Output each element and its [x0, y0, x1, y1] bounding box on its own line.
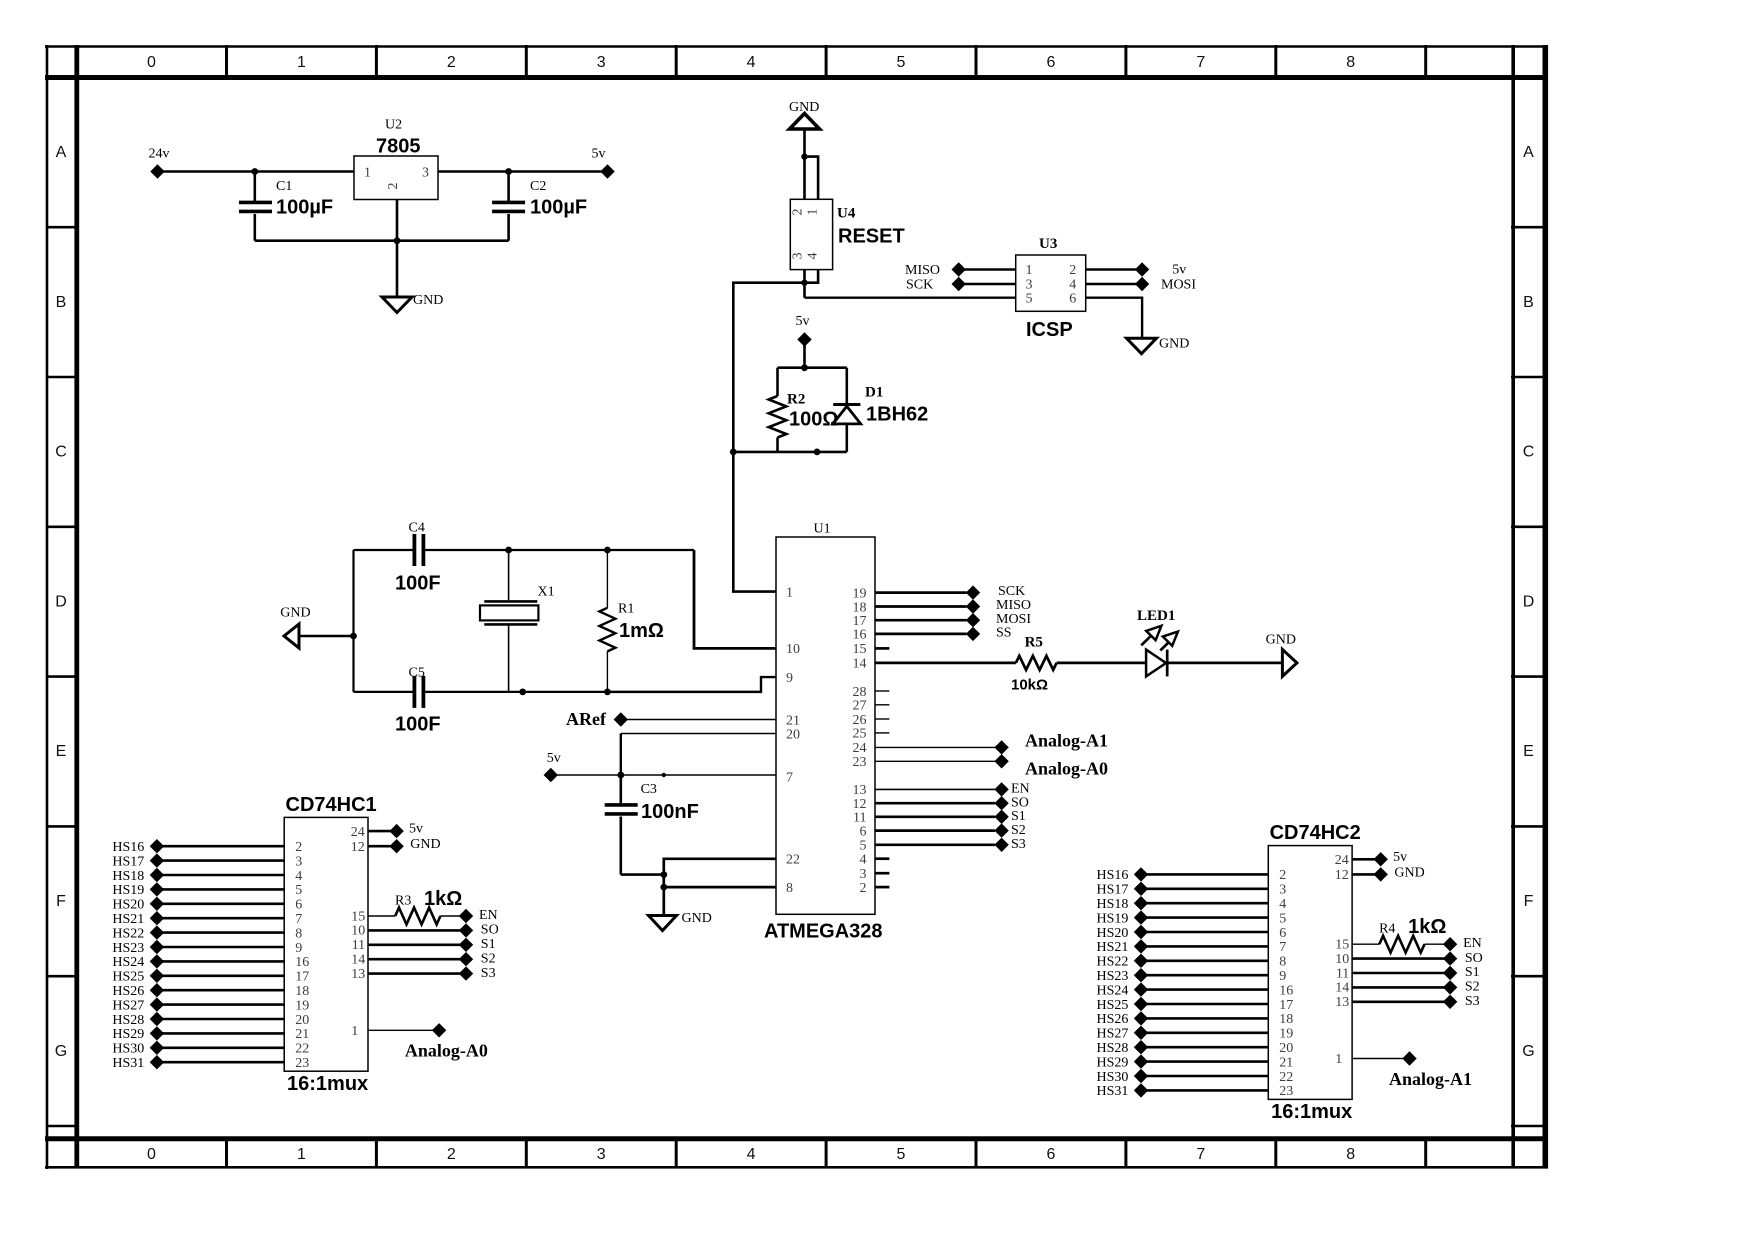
wire HS26 — [1141, 1017, 1268, 1020]
svg-text:3: 3 — [1279, 883, 1286, 898]
wire U3 pin2 to 5v — [1086, 268, 1142, 270]
wire to U4 pin1 — [805, 157, 819, 200]
svg-text:LED1: LED1 — [1137, 608, 1175, 624]
svg-text:GND: GND — [789, 100, 819, 115]
svg-text:1: 1 — [351, 1024, 358, 1039]
svg-text:C: C — [55, 444, 67, 461]
svg-text:3: 3 — [791, 253, 806, 260]
node HS28 — [1097, 1040, 1149, 1056]
resistor R3 1kΩ — [395, 888, 462, 925]
wire HS20 — [1141, 931, 1268, 934]
svg-text:16: 16 — [853, 628, 867, 643]
wire R4 to EN — [1425, 943, 1451, 945]
wire U1 pin14 to R5 — [875, 662, 1016, 665]
svg-text:CD74HC2: CD74HC2 — [1270, 822, 1361, 844]
svg-text:X1: X1 — [538, 585, 555, 600]
wire HS17 — [1141, 887, 1268, 890]
svg-text:21: 21 — [1279, 1055, 1293, 1070]
pin 28 stub — [875, 690, 889, 692]
ground GND below U2 — [382, 293, 443, 313]
node HS18 — [112, 868, 164, 884]
wire SCK to U3 pin3 — [959, 283, 1016, 285]
svg-text:24: 24 — [853, 741, 867, 756]
junction C3/gnd — [660, 871, 667, 878]
svg-text:1: 1 — [786, 585, 793, 600]
svg-text:2: 2 — [791, 209, 806, 216]
svg-text:8: 8 — [1346, 54, 1355, 71]
wire reset rail to U1 pin1 — [733, 452, 776, 592]
svg-text:S1: S1 — [1011, 809, 1026, 824]
node GND (mux) — [389, 837, 440, 853]
wire LED1 to ground — [1167, 662, 1283, 665]
node EN (U1) — [994, 782, 1029, 797]
node S1 (mux) — [459, 937, 496, 952]
node HS31 — [1097, 1083, 1149, 1099]
capacitor C5 100F — [395, 666, 441, 736]
node S2 (mux) — [459, 951, 496, 966]
node S1 (U1) — [994, 809, 1025, 824]
wire pin24 to 5v — [368, 830, 397, 833]
svg-text:4: 4 — [295, 869, 302, 884]
node 5v (mux) — [1374, 850, 1408, 867]
node HS18 — [1097, 896, 1149, 912]
svg-text:1: 1 — [806, 209, 821, 216]
svg-text:1: 1 — [1335, 1052, 1342, 1067]
svg-text:SCK: SCK — [998, 584, 1025, 599]
wire pin to S1 — [1352, 972, 1450, 975]
svg-text:11: 11 — [1336, 966, 1349, 981]
svg-text:D: D — [1523, 593, 1535, 610]
svg-text:5v: 5v — [1172, 263, 1186, 278]
ground GND (LED) — [1266, 633, 1297, 677]
ground GND (U1) — [649, 911, 712, 931]
svg-text:3: 3 — [422, 166, 429, 181]
svg-text:24: 24 — [351, 825, 365, 840]
svg-text:18: 18 — [1279, 1012, 1293, 1027]
svg-text:D: D — [55, 593, 67, 610]
wire U1 pin24 Analog-A1 — [875, 746, 995, 748]
node MISO — [966, 598, 1031, 614]
svg-text:R4: R4 — [1379, 922, 1395, 937]
wire loop bottom — [733, 451, 847, 454]
wire U3 pin6 to ground — [1086, 298, 1142, 339]
svg-text:13: 13 — [1335, 995, 1349, 1010]
svg-text:SCK: SCK — [906, 278, 933, 293]
svg-text:6: 6 — [1046, 1146, 1055, 1163]
wire HS30 — [157, 1047, 284, 1050]
junction top rail / R1 — [604, 547, 611, 554]
wire U4 pin3 down — [803, 270, 806, 298]
svg-text:23: 23 — [1279, 1084, 1293, 1099]
svg-text:22: 22 — [786, 853, 800, 868]
svg-text:GND: GND — [413, 293, 443, 308]
svg-text:28: 28 — [853, 685, 867, 700]
resistor R5 10kΩ — [1011, 635, 1057, 694]
wire 5v to U1 pin7 — [551, 774, 776, 776]
wire HS16 — [1141, 873, 1268, 876]
node GND (mux) — [1374, 865, 1425, 881]
wire U1 S3 — [875, 843, 995, 846]
svg-text:10: 10 — [786, 642, 800, 657]
svg-text:S3: S3 — [481, 966, 496, 981]
node S3 (mux) — [459, 966, 496, 981]
pin 4 stub — [875, 857, 889, 860]
node SO (mux) — [459, 923, 499, 938]
wire ground rail C1-C2 — [255, 239, 509, 242]
svg-text:GND: GND — [1394, 865, 1424, 880]
junction C2/output — [505, 168, 512, 175]
junction bottom rail / R1 — [604, 689, 611, 696]
wire U2 pin3 to 5v — [438, 170, 608, 173]
svg-text:B: B — [56, 294, 67, 311]
svg-text:EN: EN — [1463, 936, 1482, 951]
svg-text:15: 15 — [1335, 938, 1349, 953]
svg-text:R1: R1 — [618, 602, 634, 617]
svg-text:15: 15 — [853, 642, 867, 657]
node HS30 — [112, 1041, 164, 1057]
node 24v input — [149, 147, 170, 179]
wire U1 pin23 Analog-A0 — [875, 760, 995, 762]
svg-text:HS20: HS20 — [1097, 926, 1129, 941]
svg-text:4: 4 — [1279, 897, 1286, 912]
junction pin8/gnd — [660, 884, 667, 891]
svg-text:Analog-A1: Analog-A1 — [1025, 731, 1108, 751]
svg-text:100F: 100F — [395, 573, 441, 595]
svg-text:14: 14 — [1335, 981, 1349, 996]
wire HS19 — [1141, 916, 1268, 919]
wire HS27 — [1141, 1032, 1268, 1035]
svg-text:2: 2 — [447, 54, 456, 71]
wire HS21 — [157, 917, 284, 920]
wire loop top — [778, 366, 847, 369]
wire to U4 pin2 — [803, 157, 806, 200]
crystal X1 — [480, 550, 555, 692]
svg-text:E: E — [1523, 743, 1534, 760]
pin 26 stub — [875, 718, 889, 720]
svg-text:2: 2 — [386, 183, 401, 190]
svg-text:12: 12 — [1335, 868, 1349, 883]
wire U1 pin20 to 5v — [621, 733, 776, 735]
svg-text:1BH62: 1BH62 — [866, 404, 928, 426]
svg-text:23: 23 — [295, 1056, 309, 1071]
svg-text:G: G — [55, 1043, 67, 1060]
node MOSI — [966, 612, 1032, 628]
wire HS23 — [1141, 974, 1268, 977]
junction bottom rail / crystal — [519, 689, 526, 696]
svg-text:S3: S3 — [1465, 994, 1480, 1009]
IC CD74HC1 16:1mux — [284, 794, 376, 1095]
svg-text:C: C — [1523, 444, 1535, 461]
wire U1 pin22 to ground — [664, 859, 776, 916]
svg-text:ARef: ARef — [566, 709, 607, 729]
svg-text:10kΩ: 10kΩ — [1011, 677, 1048, 694]
svg-text:SO: SO — [1465, 951, 1483, 966]
svg-text:1kΩ: 1kΩ — [424, 888, 462, 910]
svg-text:7: 7 — [1196, 54, 1205, 71]
pin 2 stub — [875, 886, 889, 889]
resistor R2 100Ω — [769, 368, 839, 452]
svg-text:10: 10 — [351, 924, 365, 939]
node HS20 — [112, 897, 164, 913]
svg-text:HS22: HS22 — [1097, 955, 1129, 970]
node HS25 — [112, 969, 164, 985]
svg-text:ICSP: ICSP — [1026, 319, 1073, 341]
node MOSI — [1135, 277, 1196, 293]
node HS19 — [1097, 910, 1149, 926]
wire osc left rail — [352, 550, 354, 692]
wire HS25 — [1141, 1003, 1268, 1006]
wire top rail to U1 pin10 — [694, 550, 776, 648]
capacitor C4 100F — [395, 521, 441, 595]
wire HS19 — [157, 888, 284, 891]
svg-text:8: 8 — [1279, 955, 1286, 970]
svg-text:8: 8 — [786, 881, 793, 896]
svg-text:A: A — [1523, 144, 1534, 161]
wire HS18 — [157, 874, 284, 877]
node HS23 — [1097, 968, 1149, 984]
svg-text:HS25: HS25 — [112, 970, 144, 985]
svg-text:19: 19 — [853, 586, 867, 601]
node HS21 — [112, 911, 164, 927]
svg-text:HS31: HS31 — [112, 1056, 144, 1071]
svg-text:7: 7 — [1196, 1146, 1205, 1163]
svg-text:1: 1 — [364, 166, 371, 181]
node HS29 — [112, 1026, 164, 1042]
node HS23 — [112, 940, 164, 956]
junction top rail / crystal — [505, 547, 512, 554]
svg-text:Analog-A1: Analog-A1 — [1389, 1069, 1472, 1089]
wire reset to U3 pin5 — [805, 297, 1016, 299]
capacitor C1 100µF — [239, 172, 333, 241]
wire pin15 to R3 — [368, 915, 395, 917]
wire HS28 — [157, 1018, 284, 1021]
wire reset net to U1 pin1 — [733, 283, 804, 452]
svg-text:RESET: RESET — [838, 226, 905, 248]
wire U4 pin4 down — [805, 270, 819, 283]
svg-text:17: 17 — [295, 970, 309, 985]
svg-text:5: 5 — [897, 54, 906, 71]
wire osc top rail — [354, 549, 413, 551]
svg-text:HS16: HS16 — [1097, 868, 1129, 883]
svg-text:7805: 7805 — [376, 136, 421, 158]
svg-text:EN: EN — [479, 908, 498, 923]
wire HS22 — [157, 931, 284, 934]
svg-text:13: 13 — [351, 967, 365, 982]
svg-text:10: 10 — [1335, 952, 1349, 967]
wire U1 SCK — [875, 591, 967, 594]
node S2 (U1) — [994, 823, 1025, 838]
node MISO — [905, 262, 966, 278]
svg-text:5: 5 — [897, 1146, 906, 1163]
wire HS29 — [157, 1032, 284, 1035]
diode D1 1BH62 — [833, 368, 928, 452]
svg-text:1: 1 — [297, 1146, 306, 1163]
junction U4 pins top — [801, 153, 807, 159]
svg-text:5v: 5v — [796, 314, 810, 329]
wire HS24 — [157, 960, 284, 963]
svg-text:6: 6 — [1069, 292, 1076, 307]
junction rail/gnd — [350, 633, 357, 640]
wire pin1 to Analog-A0 — [368, 1029, 439, 1031]
wire pin to S3 — [368, 972, 466, 975]
svg-text:SO: SO — [481, 923, 499, 938]
resistor R1 1mΩ — [599, 550, 664, 692]
svg-text:HS29: HS29 — [112, 1027, 144, 1042]
svg-text:HS27: HS27 — [112, 998, 144, 1013]
svg-text:6: 6 — [1046, 54, 1055, 71]
wire HS31 — [1141, 1089, 1268, 1092]
svg-text:HS23: HS23 — [1097, 969, 1129, 984]
svg-text:26: 26 — [853, 713, 867, 728]
IC U1 ATMEGA328 — [764, 522, 883, 943]
svg-text:19: 19 — [295, 998, 309, 1013]
svg-text:21: 21 — [786, 713, 800, 728]
wire pin1 to Analog-A1 — [1352, 1058, 1409, 1060]
svg-text:13: 13 — [853, 783, 867, 798]
svg-text:HS17: HS17 — [112, 854, 144, 869]
wire osc bottom rail — [354, 691, 413, 693]
node 5v (reset pullup) — [796, 314, 812, 347]
svg-text:11: 11 — [352, 938, 365, 953]
svg-text:C3: C3 — [641, 782, 657, 797]
node HS16 — [1097, 867, 1149, 883]
svg-text:22: 22 — [295, 1042, 309, 1057]
wire pin to S3 — [1352, 1000, 1450, 1003]
wire pin12 to GND — [1352, 873, 1381, 876]
node S3 (mux) — [1443, 994, 1480, 1009]
junction loop bottom — [814, 449, 821, 456]
svg-text:5: 5 — [295, 883, 302, 898]
svg-text:CD74HC1: CD74HC1 — [286, 794, 377, 816]
svg-text:6: 6 — [860, 824, 867, 839]
wire HS23 — [157, 946, 284, 949]
LED LED1 — [1137, 608, 1178, 677]
wire pin to SO — [1352, 957, 1450, 960]
svg-text:HS25: HS25 — [1097, 998, 1129, 1013]
wire pin15 to R4 — [1352, 943, 1379, 945]
svg-text:19: 19 — [1279, 1027, 1293, 1042]
svg-text:4: 4 — [806, 253, 821, 260]
pin 25 stub — [875, 732, 889, 734]
node HS30 — [1097, 1069, 1149, 1085]
svg-text:U2: U2 — [385, 118, 402, 133]
svg-text:HS18: HS18 — [112, 869, 144, 884]
svg-text:5: 5 — [860, 839, 867, 854]
node HS26 — [112, 983, 164, 999]
node HS28 — [112, 1012, 164, 1028]
svg-text:S2: S2 — [1011, 823, 1026, 838]
ground GND (ICSP) — [1127, 337, 1190, 354]
wire R5 to LED1 — [1057, 662, 1146, 665]
svg-text:HS29: HS29 — [1097, 1055, 1129, 1070]
wire HS29 — [1141, 1060, 1268, 1063]
node HS19 — [112, 882, 164, 898]
wire pin to SO — [368, 929, 466, 932]
svg-text:2: 2 — [447, 1146, 456, 1163]
wire GND flag to junction — [803, 130, 806, 157]
node S3 (U1) — [994, 837, 1025, 852]
node SO (U1) — [994, 795, 1029, 810]
svg-text:U1: U1 — [814, 522, 831, 537]
svg-text:20: 20 — [786, 727, 800, 742]
svg-text:HS31: HS31 — [1097, 1084, 1129, 1099]
wire U1 S1 — [875, 815, 995, 818]
svg-text:HS24: HS24 — [112, 955, 144, 970]
wire HS28 — [1141, 1046, 1268, 1049]
svg-text:HS26: HS26 — [112, 984, 144, 999]
svg-text:5v: 5v — [1393, 850, 1407, 865]
svg-text:4: 4 — [747, 54, 756, 71]
node HS22 — [112, 925, 164, 941]
junction U4 pins bottom — [801, 280, 807, 286]
svg-text:14: 14 — [853, 657, 867, 672]
svg-text:GND: GND — [682, 911, 712, 926]
svg-text:S1: S1 — [481, 937, 496, 952]
junction pin7 wire — [662, 773, 666, 777]
node HS31 — [112, 1055, 164, 1071]
wire U1 EN — [875, 788, 995, 790]
wire U1 S2 — [875, 829, 995, 832]
svg-text:5v: 5v — [592, 147, 606, 162]
svg-text:U4: U4 — [837, 206, 856, 222]
svg-text:16:1mux: 16:1mux — [1271, 1101, 1352, 1123]
svg-text:C2: C2 — [530, 179, 546, 194]
svg-text:HS30: HS30 — [1097, 1070, 1129, 1085]
connector U3 ICSP — [1016, 236, 1086, 341]
svg-text:HS28: HS28 — [112, 1013, 144, 1028]
svg-text:Analog-A0: Analog-A0 — [1025, 759, 1108, 779]
svg-text:F: F — [1524, 893, 1534, 910]
node HS29 — [1097, 1054, 1149, 1070]
svg-text:24v: 24v — [149, 147, 170, 162]
wire HS16 — [157, 845, 284, 848]
border frame — [45, 45, 1548, 1169]
node HS25 — [1097, 997, 1149, 1013]
wire HS17 — [157, 859, 284, 862]
node HS20 — [1097, 925, 1149, 941]
wire R3 to EN — [440, 915, 466, 917]
svg-text:16: 16 — [1279, 983, 1293, 998]
junction 5v/C3 — [617, 772, 624, 779]
svg-text:25: 25 — [853, 727, 867, 742]
svg-text:HS28: HS28 — [1097, 1041, 1129, 1056]
svg-text:ATMEGA328: ATMEGA328 — [764, 921, 883, 943]
svg-text:GND: GND — [280, 606, 310, 621]
svg-text:3: 3 — [597, 54, 606, 71]
svg-text:100Ω: 100Ω — [789, 409, 838, 431]
IC U2 7805 regulator — [354, 118, 438, 200]
svg-text:4: 4 — [1069, 278, 1076, 293]
pin 27 stub — [875, 704, 889, 706]
svg-text:HS16: HS16 — [112, 840, 144, 855]
svg-text:Analog-A0: Analog-A0 — [405, 1041, 488, 1061]
svg-text:G: G — [1522, 1043, 1534, 1060]
svg-text:E: E — [56, 743, 67, 760]
node SO (mux) — [1443, 951, 1483, 966]
wire HS25 — [157, 974, 284, 977]
node SS — [966, 626, 1012, 642]
svg-text:5: 5 — [1026, 292, 1033, 307]
wire pin to S2 — [1352, 986, 1450, 989]
node EN (mux) — [459, 908, 498, 923]
wire bottom rail to U1 pin9 — [607, 677, 776, 692]
wire U1 MOSI — [875, 619, 967, 622]
wire pin to S2 — [368, 958, 466, 961]
svg-text:EN: EN — [1011, 782, 1030, 797]
wire HS22 — [1141, 959, 1268, 962]
node HS24 — [112, 954, 164, 970]
svg-text:23: 23 — [853, 755, 867, 770]
